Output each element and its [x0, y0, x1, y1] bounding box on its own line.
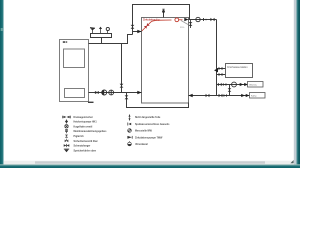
outlet label box 2 [250, 93, 266, 99]
bottom teal border bar [0, 164, 300, 168]
manifold stub wire [101, 38, 103, 44]
legend L5 symbol [65, 135, 68, 138]
svg-text:Speicherfuhler oben: Speicherfuhler oben [74, 151, 97, 153]
fresh water station feed wire A [217, 68, 226, 70]
horizontal scrollbar thumb [35, 161, 265, 163]
connection arrow into tank left top [137, 30, 141, 33]
cold water line wire [189, 95, 250, 97]
legend R2 symbol [128, 123, 131, 126]
boiler FA1 outline [60, 40, 89, 102]
legend R5 symbol [128, 141, 132, 146]
window right teal border [296, 0, 300, 168]
legend L4 symbol [65, 129, 67, 133]
hot water line wire [217, 84, 248, 86]
drain valve [189, 22, 193, 26]
check valve ticks [203, 18, 205, 21]
boiler label [63, 41, 66, 43]
buffer tank [142, 18, 189, 104]
svg-text:95%: 95% [180, 27, 184, 29]
air vent symbol [99, 27, 102, 34]
svg-text:Messstelle WW: Messstelle WW [135, 130, 153, 133]
valve C2 [223, 83, 226, 86]
valve C [218, 83, 222, 86]
svg-text:Zirkulationspumpe TWW: Zirkulationspumpe TWW [135, 136, 163, 139]
tank top-left feed wire [133, 31, 142, 33]
bypass valve [228, 88, 232, 92]
tank top air vent [162, 9, 165, 17]
connection arrow into tank right top [184, 18, 188, 21]
resize grip [290, 160, 293, 163]
svg-text:Kugelhahn ventil: Kugelhahn ventil [74, 125, 93, 128]
jog wire to boiler top pipe [89, 35, 133, 44]
boiler plinth mark [88, 102, 94, 103]
legend L1 symbol [63, 116, 71, 119]
safety group manifold [91, 34, 112, 38]
legend R1 symbol [128, 114, 130, 120]
drain branch wire [127, 93, 189, 108]
shutoff valve top right [210, 18, 214, 22]
svg-text:Heizkreispumpe HK1: Heizkreispumpe HK1 [74, 122, 98, 124]
svg-text:Sicherheitsventil 3bar: Sicherheitsventil 3bar [74, 140, 98, 143]
svg-text:Dreiwegemischer: Dreiwegemischer [74, 117, 93, 119]
drain valve lower [125, 95, 129, 99]
legend L3 symbol [65, 125, 68, 128]
svg-text:Pigtail 2x: Pigtail 2x [74, 135, 85, 138]
top right pipe wire [189, 19, 217, 21]
svg-text:Nicht dargestellte Teile: Nicht dargestellte Teile [135, 116, 161, 119]
valve on riser [120, 84, 124, 88]
svg-text:Frischwasserstation: Frischwasserstation [227, 66, 248, 69]
circulation pump hot water [232, 82, 237, 87]
svg-text:Schmutzfanger: Schmutzfanger [74, 145, 91, 148]
connection arrow into tank left bottom [137, 91, 141, 94]
circulation pump top right [196, 17, 200, 21]
window right scrollbar light strip [294, 0, 297, 168]
valve E2 [224, 94, 227, 97]
red valve on flow line [144, 23, 150, 29]
right main riser wire [216, 20, 218, 96]
svg-text:Spulwasseranschluss bauseits: Spulwasseranschluss bauseits [135, 123, 170, 126]
safety valve symbol [90, 28, 95, 34]
svg-text:Uhrenkanal: Uhrenkanal [135, 144, 148, 146]
check valve on lower pipe [95, 91, 98, 94]
arrows to outlet 2 [241, 94, 249, 97]
valve D [206, 94, 210, 97]
svg-text:Membranausdehnungsgefass: Membranausdehnungsgefass [74, 131, 108, 133]
boiler to tank lower pipe wire [89, 92, 142, 94]
red flow line [142, 20, 172, 31]
svg-text:Warmw.: Warmw. [249, 84, 257, 87]
connection arrow on riser [214, 68, 218, 72]
window left teal border [0, 0, 4, 168]
horizontal scrollbar track [4, 161, 294, 164]
svg-text:Kaltw.: Kaltw. [251, 95, 257, 98]
gray pointer line [181, 21, 188, 25]
arrows to outlet 1 [240, 83, 248, 86]
valve E [219, 94, 223, 97]
drain stub under tee [190, 20, 192, 29]
fresh water station feed wire B [217, 74, 226, 76]
outlet label box 1 [248, 82, 264, 88]
legend L6 symbol [65, 139, 69, 143]
red pump circle [175, 18, 179, 22]
valve on loop left leg [131, 25, 135, 29]
pump with half fill [102, 90, 107, 95]
legend L2 symbol [65, 119, 68, 123]
legend R4 symbol [127, 136, 132, 139]
valve B [219, 73, 223, 76]
valve A [219, 67, 223, 70]
fresh water station box [226, 64, 253, 78]
top expansion loop pipe [133, 5, 190, 35]
legend L7 symbol [64, 144, 70, 147]
bypass stub wire [229, 85, 231, 96]
legend R3 symbol [128, 129, 132, 133]
legend L8 symbol [64, 149, 69, 152]
riser wire [121, 44, 123, 93]
connection arrow into tank right bottom [189, 94, 193, 97]
red stub [179, 19, 183, 21]
pressure gauge symbol [106, 27, 109, 33]
valve circle [109, 90, 114, 95]
